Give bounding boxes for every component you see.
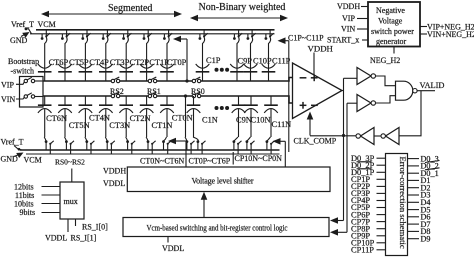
svg-text:RS2: RS2 (110, 87, 124, 96)
error-correction schematic box (386, 154, 408, 256)
output D0_2 (408, 161, 440, 171)
svg-text:C9N: C9N (236, 116, 252, 125)
op-amp comparator U1 (293, 63, 343, 119)
switch S_CT0P (top rail SPDT) (163, 30, 172, 47)
input CP8P (351, 224, 386, 233)
switch S_CT0N (bottom rail SPDT) (162, 137, 171, 154)
capacitor C10N (244, 96, 258, 137)
mux select RS_I[1] (68, 219, 97, 243)
svg-text:CT4N: CT4N (89, 114, 110, 123)
wire U5 to U6 (374, 135, 381, 137)
output D7 (408, 220, 431, 229)
capacitor CT0P (160, 47, 174, 81)
svg-text:VCM: VCM (38, 20, 56, 29)
svg-text:VDDL: VDDL (103, 179, 125, 188)
svg-text:C11N: C11N (272, 120, 292, 129)
capacitor C9P (230, 47, 244, 81)
wire Vref_T to rail (25, 28, 32, 34)
switch S_CT3N (bottom rail SPDT) (105, 137, 115, 154)
output D0_1 (408, 168, 440, 178)
output D4 (408, 198, 431, 207)
VCM rail (bottom) (20, 149, 280, 151)
capacitor C1P (196, 47, 210, 81)
svg-text:VIN: VIN (341, 25, 355, 34)
svg-text:NEG_H2: NEG_H2 (370, 56, 400, 65)
switch RS1 (series bus switches) (147, 77, 161, 98)
control arrow CP10N~CP0N (273, 138, 286, 167)
svg-text:C1P: C1P (206, 56, 221, 65)
input CP11P (351, 246, 386, 255)
mux input 11bits (15, 191, 60, 200)
Vref/GND rail (top) (30, 33, 275, 35)
svg-text:VCM: VCM (24, 156, 42, 165)
VALID output wire (417, 90, 435, 92)
VIP input switch (16, 77, 43, 84)
svg-text:CT6N: CT6N (46, 114, 67, 123)
VIN bus jog into comparator (287, 96, 293, 103)
input CP7P (351, 217, 386, 226)
input CP4P (351, 196, 386, 205)
VIN bus (bottom plate bus) (43, 95, 287, 97)
svg-text:Vref_T: Vref_T (1, 138, 24, 147)
switch S_CT5P (top rail SPDT) (61, 30, 70, 47)
NVG output VIN+NEG_H2S (420, 30, 474, 39)
bootstrap switch box (20, 77, 44, 108)
svg-text:CT3N: CT3N (109, 121, 130, 130)
wire U6 to CLK_COMP (310, 135, 356, 137)
switch S_XN (bottom rail SPDT) (185, 137, 195, 154)
switch S_C11N (bottom rail SPDT) (266, 137, 275, 154)
svg-text:generator: generator (376, 37, 407, 46)
output D0_3 (408, 154, 439, 163)
svg-text:RS1: RS1 (147, 87, 161, 96)
output D2 (408, 183, 431, 192)
svg-text:Segmented: Segmented (108, 3, 152, 14)
VCM rail (top) (36, 29, 275, 31)
comparator outputs to control logic (330, 136, 347, 236)
comparator output stubs (342, 78, 357, 135)
mux input 10bits (14, 200, 60, 209)
output D3 (408, 191, 431, 200)
GND arrow to rail (21, 32, 30, 38)
input CP3P (351, 189, 386, 198)
svg-text:mux: mux (64, 197, 78, 206)
wire plain branch (bottom) (184, 94, 187, 137)
output D5 (408, 205, 431, 214)
capacitor CT5N (58, 96, 72, 137)
separator tick (232, 152, 234, 165)
capacitor CT1N (140, 96, 154, 137)
inverter U2 (top) (357, 68, 375, 85)
NVG input START_x (327, 36, 368, 45)
svg-text:VDDL: VDDL (45, 234, 67, 243)
svg-text:D9: D9 (421, 234, 431, 243)
svg-text:CT0N~CT6N: CT0N~CT6N (140, 157, 185, 166)
svg-text:VDDH: VDDH (308, 44, 334, 54)
arrow from control logic to level shifter (201, 192, 208, 218)
capacitor CT2N (119, 96, 133, 137)
negative voltage switch power generator box (368, 2, 420, 47)
svg-text:RS_I[0]: RS_I[0] (82, 223, 108, 232)
capacitor C1N (187, 96, 201, 137)
switch S_CT1P (top rail SPDT) (143, 30, 152, 47)
mux box (60, 182, 84, 219)
svg-text:RS_I[1]: RS_I[1] (71, 234, 97, 243)
NVG input VIP (342, 14, 368, 23)
feedback wire from VALID (399, 91, 421, 136)
mux input 12bits (14, 183, 60, 192)
svg-text:switch power: switch power (371, 27, 414, 36)
inverter U3 (bottom) (357, 95, 375, 112)
input D0_2P (351, 161, 386, 170)
wire RS0~RS2 to mux (71, 169, 73, 183)
svg-text:Negative: Negative (376, 6, 405, 15)
switch S_CT4N (bottom rail SPDT) (85, 137, 95, 154)
svg-text:Error-correction schematic: Error-correction schematic (398, 157, 408, 249)
svg-text:RS0: RS0 (191, 87, 205, 96)
switch S_C9N (bottom rail SPDT) (233, 137, 242, 154)
svg-text:9bits: 9bits (20, 208, 36, 217)
input D0_3P (351, 154, 386, 163)
svg-text:CT0N: CT0N (172, 114, 193, 123)
svg-text:Bootstrap: Bootstrap (8, 57, 39, 66)
svg-text:Vcm-based switching and bit-re: Vcm-based switching and bit-register con… (147, 224, 288, 233)
capacitor CT6P (38, 47, 52, 81)
svg-text:CT0P: CT0P (167, 58, 187, 67)
switch RS2 (series bus switches) (110, 77, 124, 98)
svg-text:C1P~C11P: C1P~C11P (288, 34, 324, 43)
svg-text:CT1N: CT1N (152, 121, 173, 130)
svg-text:VIP: VIP (342, 14, 355, 23)
CLK_COMP arrow into comparator (307, 112, 314, 136)
control arrow CT0P~CT6P (173, 36, 189, 83)
switch S_CT2N (bottom rail SPDT) (126, 137, 136, 154)
wire U3 to NAND (376, 96, 396, 103)
switch S_CT6P (top rail SPDT) (41, 30, 50, 47)
mux input 9bits (20, 208, 61, 217)
svg-text:Non-Binary weighted: Non-Binary weighted (199, 2, 286, 13)
switch S_CT5N (bottom rail SPDT) (65, 137, 75, 154)
capacitor CT5P (58, 47, 72, 81)
svg-text:VIN: VIN (1, 95, 15, 104)
voltage level shifter box (127, 167, 330, 192)
svg-text:VIN+NEG_H2S: VIN+NEG_H2S (427, 30, 474, 39)
capacitor CT3P (99, 47, 113, 81)
svg-text:CP10N~CP0N: CP10N~CP0N (235, 154, 283, 163)
switch S_C9P (top rail SPDT) (233, 30, 242, 47)
svg-text:CP11P: CP11P (351, 246, 374, 255)
Vref/GND rail (bottom) (26, 153, 280, 155)
svg-text:Voltage: Voltage (378, 17, 403, 26)
svg-text:-switch: -switch (11, 67, 35, 76)
input CP1P (351, 175, 386, 184)
capacitor C11P (262, 47, 276, 81)
capacitor CT2P (119, 47, 133, 81)
wire Vref_T to bottom rail (14, 146, 22, 151)
capacitor CT1P (140, 47, 154, 81)
GND arrow to bottom rail (14, 153, 24, 159)
svg-text:VDDL: VDDL (162, 244, 184, 253)
capacitor C9N (232, 96, 246, 137)
comparator input polarity marks (300, 74, 318, 108)
label VDDL (control logic) (162, 237, 184, 254)
input CP10P (351, 239, 386, 248)
Vcm-based switching and bit-register control logic box (123, 218, 329, 237)
svg-text:Voltage level shifter: Voltage level shifter (192, 177, 254, 186)
NVG output NEG_H2 (370, 47, 400, 66)
switch S_C10P (top rail SPDT) (247, 30, 256, 47)
control arrow CT0N~CT6N (168, 138, 186, 167)
capacitor CT4P (79, 47, 93, 81)
segmented range arrow (41, 11, 182, 18)
svg-text:GND: GND (10, 36, 28, 45)
capacitor CT4N (79, 96, 93, 137)
svg-text:C10N: C10N (251, 116, 271, 125)
ellipsis dots (P row) (215, 68, 230, 72)
switch S_C1P (top rail SPDT) (199, 30, 208, 47)
switch S_CT2P (top rail SPDT) (122, 30, 131, 47)
inverter U6 (feedback left) (356, 128, 374, 145)
switch S_CT4P (top rail SPDT) (81, 30, 90, 47)
NAND gate U4 (396, 81, 418, 100)
switch S_C10N (bottom rail SPDT) (246, 137, 255, 154)
svg-text:RS0~RS2: RS0~RS2 (55, 158, 85, 167)
VIN input switch (16, 93, 43, 99)
switch S_CT6N (bottom rail SPDT) (44, 137, 54, 154)
svg-text:CT0P~CT6P: CT0P~CT6P (189, 157, 231, 166)
svg-text:CT5N: CT5N (69, 121, 90, 130)
wire VDDH to comparator (313, 53, 315, 75)
VIP bus jog into comparator (287, 78, 293, 82)
switch S_C1N (bottom rail SPDT) (193, 137, 206, 154)
capacitor CT3N (99, 96, 113, 137)
switch S_CT1N (bottom rail SPDT) (146, 137, 156, 154)
input CP9P (351, 231, 386, 240)
output D6 (408, 213, 431, 222)
svg-text:VDDH: VDDH (103, 167, 126, 176)
non-binary range arrow (190, 15, 288, 22)
svg-text:VDDH: VDDH (337, 2, 360, 11)
capacitor CT0N (160, 96, 174, 137)
switch RS0 (series bus switches) (191, 77, 205, 98)
junction on clk feedback (342, 134, 345, 137)
NVG input VIN (341, 25, 368, 34)
inverter U5 (feedback right) (381, 128, 399, 145)
NVG input VDDH (337, 2, 368, 11)
mux select RS_I[0] (76, 219, 109, 232)
switch S_CT3P (top rail SPDT) (102, 30, 111, 47)
output D1 (408, 176, 431, 185)
output D8 (408, 227, 431, 236)
ellipsis dots (N row) (215, 106, 230, 110)
input CP6P (351, 210, 386, 219)
svg-text:VALID: VALID (420, 81, 445, 90)
capacitor C10P (244, 47, 258, 81)
wire U2 to NAND (376, 76, 396, 86)
svg-text:START_x: START_x (327, 36, 359, 45)
NVG output VIP+NEG_H2S (420, 23, 474, 32)
input CP5P (351, 203, 386, 212)
VIP bus (top plate bus) (43, 80, 287, 82)
capacitor C11N (264, 96, 278, 137)
input CP2P (351, 182, 386, 191)
svg-text:CLK_COMP: CLK_COMP (294, 137, 337, 146)
input D0_1P (351, 168, 386, 177)
svg-text:VIP: VIP (1, 81, 14, 90)
svg-text:Vref_T: Vref_T (11, 20, 34, 29)
svg-text:CT2N: CT2N (130, 114, 151, 123)
capacitor CT6N (38, 96, 52, 137)
output D9 (408, 234, 431, 243)
control arrow C1P~C11P (278, 37, 289, 152)
svg-text:C1N: C1N (202, 116, 218, 125)
switch S_C11P (top rail SPDT) (265, 30, 274, 47)
